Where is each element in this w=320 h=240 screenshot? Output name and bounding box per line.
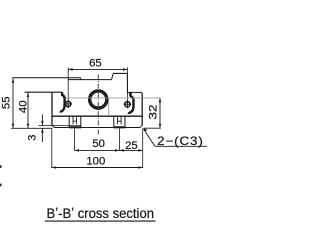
extension line left (65) bbox=[67, 67, 69, 100]
left crosshair hole bbox=[64, 100, 72, 108]
right bottom chamfer bbox=[140, 125, 142, 127]
right crosshair hole bbox=[124, 100, 132, 108]
barrel bottom line bbox=[52, 115, 142, 117]
dimension 100 line bbox=[52, 166, 143, 169]
right box outer edge bbox=[141, 94, 143, 126]
ear top right bbox=[127, 92, 142, 94]
left common extension column bbox=[51, 128, 53, 168]
bore outer circle bbox=[89, 90, 107, 108]
bore vertical centerline bbox=[97, 74, 99, 134]
caption underline bbox=[45, 220, 156, 222]
raised block right edge bbox=[126, 73, 128, 92]
base bottom line bbox=[54, 127, 140, 129]
left page edge mark 2 bbox=[0, 184, 2, 187]
svg-text:25: 25 bbox=[125, 140, 138, 152]
svg-text:Bʼ-Bʼ cross section: Bʼ-Bʼ cross section bbox=[47, 206, 155, 221]
dimension 40 vertical bbox=[27, 93, 30, 129]
right common extension column bbox=[142, 128, 144, 168]
chain extension from left foot bbox=[74, 129, 76, 151]
svg-text:40: 40 bbox=[18, 101, 30, 114]
gray section line horizontal bbox=[66, 97, 160, 99]
leader 2-(C3) bbox=[143, 128, 207, 146]
dimension 32 bottom extension bbox=[144, 127, 161, 129]
dimension 3 lower bbox=[41, 128, 44, 142]
svg-text:32: 32 bbox=[147, 105, 159, 120]
raised block top C bbox=[113, 72, 127, 74]
dimension 32 vertical bbox=[159, 98, 162, 128]
dimension 3 upper bbox=[39, 115, 82, 126]
dimension 55 vertical bbox=[12, 78, 15, 128]
left ear bracket bbox=[61, 92, 65, 112]
right foot thread boss bbox=[114, 116, 126, 127]
chain extension from right foot bbox=[118, 129, 120, 151]
top step to recess bbox=[80, 78, 83, 80]
svg-text:50: 50 bbox=[92, 138, 105, 150]
left bottom chamfer bbox=[52, 125, 54, 127]
svg-text:2−(C3): 2−(C3) bbox=[157, 134, 204, 148]
left box outer edge bbox=[51, 92, 53, 125]
gray internal vertical bbox=[108, 98, 110, 116]
ear top left / 40 extension bbox=[25, 91, 63, 93]
svg-text:3: 3 bbox=[26, 135, 38, 141]
recess surface line B bbox=[68, 79, 111, 81]
step diagonal to raised block bbox=[112, 73, 114, 79]
svg-text:65: 65 bbox=[89, 57, 102, 69]
dimension 65 dim line bbox=[68, 68, 127, 71]
svg-text:55: 55 bbox=[1, 97, 13, 110]
left foot thread boss bbox=[69, 116, 81, 127]
left page edge mark 1 bbox=[0, 165, 2, 168]
svg-text:100: 100 bbox=[86, 155, 105, 167]
bottom extension line (55/40) bbox=[11, 127, 52, 129]
bore inner circle bbox=[91, 92, 106, 107]
right ear bracket bbox=[129, 93, 134, 115]
extension line right (65) bbox=[126, 67, 128, 100]
top surface line A (with 55 extension) bbox=[12, 77, 80, 79]
dimension 50/25 line bbox=[75, 149, 143, 152]
